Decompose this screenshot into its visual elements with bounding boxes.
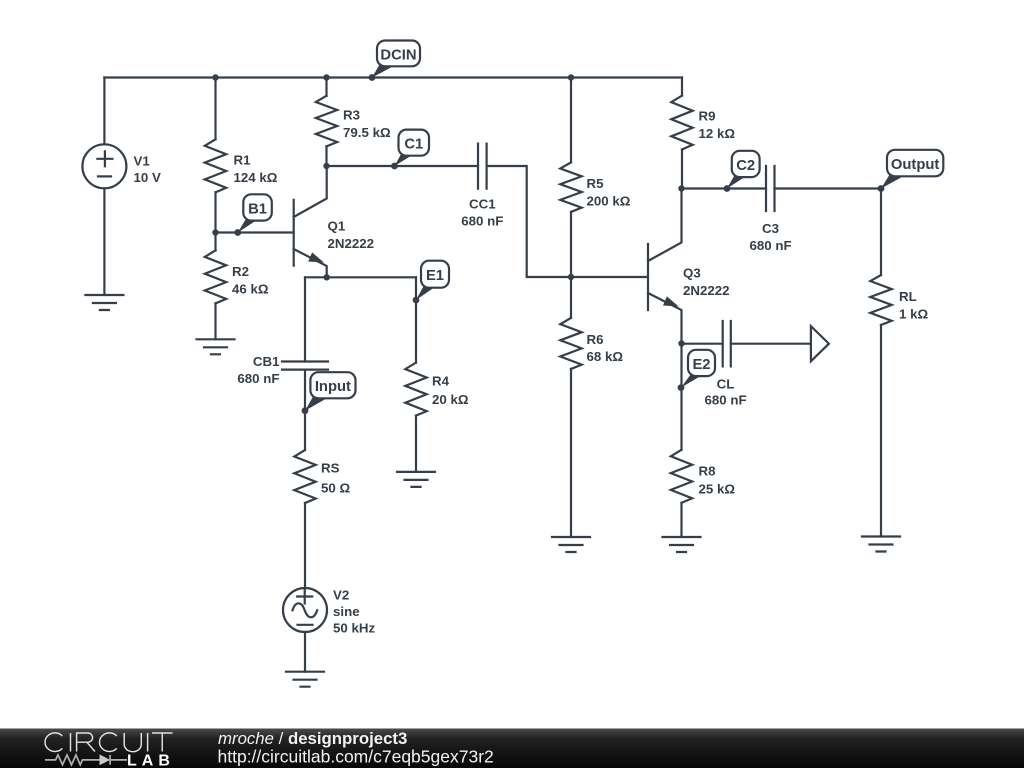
node E1 flag [413, 261, 449, 304]
transistor Q1 2N2222 [294, 166, 327, 277]
node C1 flag [391, 130, 429, 170]
capacitor CB1 [282, 362, 328, 370]
resistor R9 [671, 96, 692, 150]
wire R6 top stub [570, 277, 572, 318]
resistor RL [870, 275, 891, 325]
svg-text:Q1: Q1 [328, 219, 346, 234]
svg-text:B1: B1 [248, 202, 267, 218]
svg-text:79.5 kΩ: 79.5 kΩ [343, 125, 391, 140]
svg-text:R4: R4 [432, 374, 450, 389]
svg-text:68 kΩ: 68 kΩ [587, 349, 624, 364]
label R5 value [587, 176, 631, 209]
svg-text:Q3: Q3 [683, 266, 701, 281]
svg-text:680 nF: 680 nF [461, 214, 503, 229]
wire V1 top [103, 78, 105, 145]
svg-text:V1: V1 [134, 154, 151, 169]
wire R9 top stub [681, 78, 683, 96]
svg-text:C3: C3 [762, 221, 779, 236]
ground for V1 [85, 295, 123, 310]
resistor R1 [205, 139, 226, 192]
wire R2 top stub [214, 233, 216, 251]
svg-text:E2: E2 [692, 357, 710, 373]
svg-text:R6: R6 [587, 332, 604, 347]
wire down to CB1 [304, 277, 306, 361]
ground for R8 [663, 537, 701, 552]
resistor R8 [671, 450, 692, 503]
label C3 value [749, 221, 791, 253]
svg-text:CL: CL [717, 377, 735, 392]
svg-text:25 kΩ: 25 kΩ [699, 482, 736, 497]
wire R4 to ground [415, 416, 417, 472]
label CL value [704, 377, 746, 408]
resistor R6 [560, 318, 581, 369]
wire base of Q1 (B1 net) [216, 231, 294, 233]
svg-text:680 nF: 680 nF [237, 371, 279, 386]
svg-text:1 kΩ: 1 kΩ [899, 307, 928, 322]
node Input flag [302, 372, 356, 414]
label R8 value [699, 464, 736, 497]
svg-text:R5: R5 [587, 176, 605, 191]
voltage source V2 sine [283, 588, 327, 632]
resistor R3 [316, 96, 337, 147]
svg-text:680 nF: 680 nF [704, 393, 746, 408]
resistor R2 [205, 250, 226, 303]
junction Q3 emitter / E2 [678, 340, 684, 346]
ground for R6 [552, 537, 590, 552]
label CB1 value [237, 354, 280, 386]
node E2 flag [678, 350, 715, 391]
transistor Q3 2N2222 [648, 189, 682, 344]
node C2 flag [724, 151, 760, 192]
svg-text:20 kΩ: 20 kΩ [432, 392, 469, 407]
svg-text:RL: RL [899, 289, 917, 304]
wire R9 bottom stub [681, 149, 683, 188]
wire top power rail [104, 76, 682, 78]
wire C2 node to C3 [682, 187, 767, 189]
label V2 value [333, 588, 375, 636]
wire R6 bottom to ground [570, 369, 572, 537]
wire R3 bottom stub [325, 146, 327, 166]
resistor RS [294, 450, 315, 503]
wire R1 top stub [214, 78, 216, 140]
svg-text:DCIN: DCIN [380, 47, 416, 63]
node DCIN flag [369, 41, 420, 81]
svg-text:50 Ω: 50 Ω [321, 481, 350, 496]
svg-text:2N2222: 2N2222 [683, 283, 730, 298]
svg-text:10 V: 10 V [134, 170, 161, 185]
label R4 value [432, 374, 469, 408]
ground for V2 [286, 672, 324, 687]
capacitor C3 [766, 166, 775, 211]
wire R8 to ground [680, 503, 682, 537]
wire R5 bottom to node [570, 212, 572, 277]
svg-text:E1: E1 [426, 268, 444, 284]
svg-text:Output: Output [891, 157, 940, 173]
wire R2 bottom to ground [214, 303, 216, 339]
label RS value [321, 461, 350, 496]
svg-text:R8: R8 [699, 464, 716, 479]
label R2 value [232, 264, 269, 297]
junction top rail / R1 [212, 74, 218, 80]
label Q1 value [328, 219, 375, 252]
svg-text:LAB: LAB [127, 753, 175, 768]
svg-text:CC1: CC1 [469, 197, 496, 212]
junction top rail / R5 [568, 74, 574, 80]
node Output flag [878, 150, 944, 192]
label RL value [899, 289, 928, 322]
capacitor CC1 [478, 144, 487, 189]
junction Q1 emitter [324, 274, 330, 280]
ground for R4 [397, 472, 435, 487]
label R9 value [699, 109, 736, 142]
capacitor CL [723, 321, 731, 366]
svg-text:R2: R2 [232, 264, 249, 279]
svg-text:C1: C1 [404, 137, 423, 153]
svg-text:680 nF: 680 nF [749, 238, 791, 253]
wire V1 bottom to ground [103, 188, 105, 295]
junction R5-R6 / Q3 base [568, 274, 574, 280]
wire E1 branch down to R4 [415, 277, 417, 362]
svg-text:46 kΩ: 46 kΩ [232, 282, 269, 297]
CircuitLab logo [45, 733, 175, 768]
wire R1 bottom stub (node B1) [214, 192, 216, 232]
svg-text:sine: sine [333, 604, 360, 619]
svg-text:2N2222: 2N2222 [328, 236, 375, 251]
svg-text:http://circuitlab.com/c7eqb5ge: http://circuitlab.com/c7eqb5gex73r2 [218, 746, 494, 766]
label V1 value [134, 154, 161, 186]
svg-text:CB1: CB1 [253, 354, 280, 369]
svg-text:200 kΩ: 200 kΩ [587, 194, 631, 209]
node B1 flag [234, 194, 271, 236]
wire Q1 emitter node horizontal [305, 276, 416, 278]
wire E2 branch down to R8 [680, 344, 682, 450]
junction node C1 [323, 163, 329, 169]
resistor R5 [560, 162, 581, 212]
wire CL to expander flag [731, 343, 811, 345]
ground for RL [862, 537, 900, 552]
voltage source V1 10V [82, 144, 126, 188]
svg-text:V2: V2 [333, 588, 349, 603]
wire C3 to Output [775, 187, 882, 189]
label R6 value [587, 332, 624, 364]
junction Q3 collector / C2 [678, 185, 684, 191]
wire CB1 to RS [304, 370, 306, 450]
label Q3 value [683, 266, 730, 299]
resistor R4 [405, 363, 426, 416]
svg-text:50 kHz: 50 kHz [333, 621, 375, 636]
junction top rail / R3 [323, 74, 329, 80]
svg-text:R9: R9 [699, 109, 716, 124]
expander/output flag triangle [811, 326, 829, 361]
wire RL bottom to ground [880, 325, 882, 537]
svg-text:RS: RS [321, 461, 340, 476]
svg-text:R3: R3 [343, 108, 360, 123]
junction node B1 [212, 229, 218, 235]
wire RL top stub [880, 189, 882, 276]
svg-text:124 kΩ: 124 kΩ [234, 170, 278, 185]
wire Q3 emitter to CL [682, 343, 723, 345]
svg-text:12 kΩ: 12 kΩ [699, 126, 736, 141]
label R3 value [343, 108, 391, 141]
ground for R2 [197, 339, 235, 354]
wire CC1 right, down, to Q3 base [487, 166, 648, 277]
wire RS to V2 [304, 503, 306, 588]
wire C1 node to CC1 [327, 165, 479, 167]
svg-text:mroche / designproject3: mroche / designproject3 [218, 729, 407, 748]
wire V2 to ground [304, 632, 306, 672]
label CC1 value [461, 197, 503, 229]
wire R5 top stub [570, 78, 572, 163]
label R1 value [234, 153, 278, 186]
wire R3 top stub [325, 78, 327, 96]
svg-text:Input: Input [315, 379, 351, 395]
svg-text:R1: R1 [234, 153, 252, 168]
svg-text:C2: C2 [736, 158, 755, 174]
